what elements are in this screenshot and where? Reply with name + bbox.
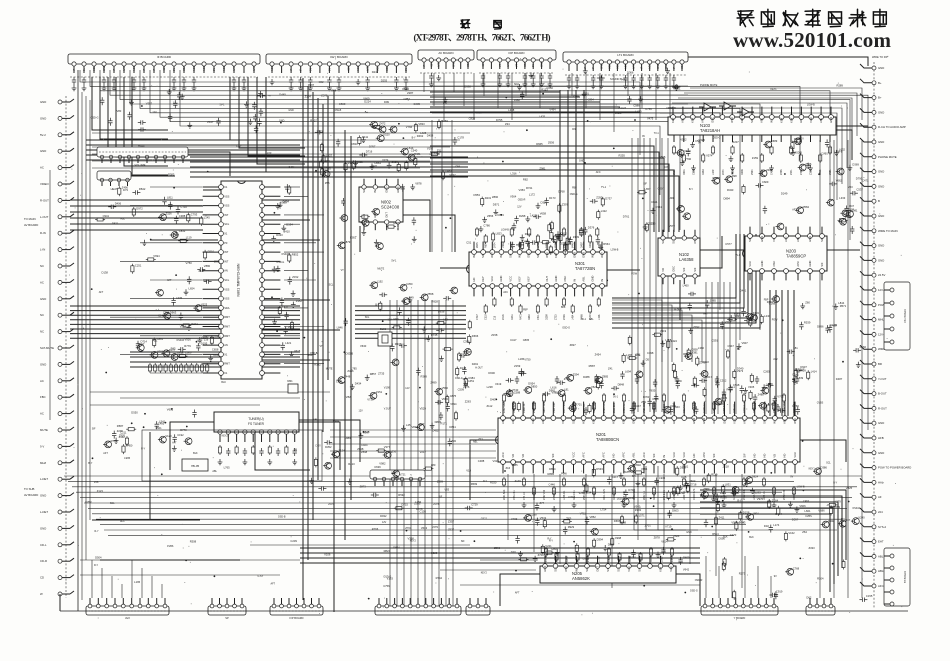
bus wire: [396, 300, 398, 606]
wire: [731, 576, 733, 598]
capacitor: [462, 366, 466, 374]
pin 10: [760, 115, 765, 120]
svg-text:C806: C806: [185, 351, 192, 355]
left pin 30: [58, 576, 62, 580]
pin L19: [219, 352, 224, 357]
svg-text:OUT: OUT: [490, 252, 494, 258]
transistor: [776, 223, 784, 230]
svg-text:ABL: ABL: [783, 418, 787, 424]
scan noise dots (decorative): [66, 56, 903, 620]
svg-text:LOW-B: LOW-B: [611, 248, 619, 251]
svg-text:Z701: Z701: [645, 524, 652, 528]
ground: [374, 239, 379, 245]
wire: [120, 397, 300, 399]
capacitor: [548, 73, 552, 81]
svg-text:C875: C875: [450, 394, 457, 398]
wire: [91, 560, 93, 598]
svg-text:SIF: SIF: [536, 253, 540, 258]
resistor: [437, 119, 440, 129]
wire: [131, 560, 133, 598]
resistor: [582, 477, 585, 487]
svg-text:R462: R462: [417, 134, 424, 138]
transistor: [557, 390, 565, 397]
svg-text:ABL: ABL: [796, 236, 800, 242]
svg-text:AFT: AFT: [233, 66, 236, 71]
ground: [641, 360, 646, 366]
wire: [430, 146, 654, 232]
svg-text:D32: D32: [764, 524, 769, 528]
svg-text:Z59: Z59: [641, 400, 646, 404]
svg-text:L192: L192: [377, 280, 383, 284]
svg-text:www.520101.com: www.520101.com: [733, 28, 892, 52]
resistor: [126, 428, 136, 431]
svg-text:SDA: SDA: [224, 306, 230, 310]
svg-text:V878: V878: [415, 182, 422, 186]
svg-text:IN: IN: [770, 120, 774, 123]
capacitor: [675, 376, 679, 384]
svg-text:D665: D665: [614, 519, 621, 523]
remote header: [370, 470, 425, 486]
wire: [266, 77, 305, 172]
svg-text:KEY: KEY: [671, 117, 675, 123]
left pin 14: [58, 313, 62, 317]
svg-text:IN: IN: [600, 279, 604, 282]
wire: [70, 229, 203, 231]
resistor: [190, 363, 193, 373]
wire: [284, 326, 324, 328]
resistor: [580, 227, 583, 237]
ground: [788, 501, 793, 507]
IC N201 TA8880BCN: [496, 402, 800, 474]
tuner pin 1: [218, 430, 222, 434]
bus wire: [84, 502, 770, 504]
svg-text:C786: C786: [483, 224, 490, 228]
wire: [700, 249, 745, 251]
svg-text:WIRE TO MAIN: WIRE TO MAIN: [878, 229, 898, 233]
capacitor: [623, 75, 627, 83]
svg-text:C217: C217: [612, 475, 619, 479]
svg-text:V.OUT: V.OUT: [362, 432, 370, 435]
svg-text:Z462: Z462: [766, 168, 773, 172]
resistor: [352, 160, 355, 170]
wire: [700, 508, 834, 584]
ground: [808, 165, 813, 171]
wire: [663, 474, 665, 552]
svg-text:MUTE: MUTE: [40, 428, 48, 432]
wire: [679, 280, 681, 320]
wire: [80, 559, 300, 561]
svg-text:V419: V419: [495, 382, 502, 386]
wire: [432, 85, 688, 87]
wire: [539, 73, 541, 108]
wire: [599, 73, 601, 120]
left pin 1: [58, 100, 62, 104]
svg-text:KEY: KEY: [658, 566, 662, 572]
svg-text:D441: D441: [740, 289, 747, 293]
capacitor: [197, 267, 205, 271]
capacitor: [308, 77, 312, 85]
pin 17: [829, 115, 834, 120]
transistor: [391, 470, 399, 477]
resistor: [288, 185, 291, 195]
ground: [481, 81, 486, 87]
pin L9: [219, 259, 224, 264]
svg-text:V593: V593: [731, 521, 738, 525]
capacitor: [397, 307, 401, 315]
svg-text:VD: VD: [561, 420, 565, 424]
svg-text:5V: 5V: [532, 64, 535, 67]
svg-text:D534: D534: [286, 223, 293, 227]
svg-text:V790: V790: [685, 157, 692, 161]
svg-text:VT: VT: [341, 269, 345, 272]
svg-text:AV2: AV2: [125, 616, 130, 620]
svg-text:C299: C299: [834, 505, 841, 509]
svg-text:B+: B+: [878, 81, 882, 85]
resistor: [692, 401, 695, 411]
resistor: [707, 473, 710, 483]
capacitor: [655, 478, 659, 486]
ground: [365, 85, 370, 91]
svg-text:R674: R674: [485, 242, 488, 248]
svg-text:R664: R664: [528, 314, 531, 320]
svg-text:R-OUT: R-OUT: [40, 198, 49, 202]
transistor: [400, 148, 408, 155]
svg-text:R530: R530: [490, 481, 497, 485]
capacitor: [337, 77, 341, 85]
svg-text:R891: R891: [767, 300, 774, 304]
wire: [612, 234, 736, 298]
svg-text:AFC: AFC: [700, 117, 704, 122]
pin 13: [581, 250, 586, 255]
svg-text:K1: K1: [224, 185, 228, 189]
ground: [643, 224, 648, 230]
svg-text:R30: R30: [589, 243, 592, 248]
svg-text:Z457: Z457: [734, 313, 741, 317]
resistor: [555, 552, 558, 562]
svg-text:Z287: Z287: [407, 91, 414, 95]
svg-text:GND: GND: [878, 140, 884, 144]
capacitor: [699, 379, 707, 383]
cs1 pin 1: [890, 288, 894, 292]
svg-text:AGC: AGC: [223, 65, 226, 71]
svg-text:12V: 12V: [359, 409, 364, 412]
wire: [355, 323, 466, 325]
svg-text:V374: V374: [382, 158, 389, 162]
svg-text:R571: R571: [840, 304, 847, 308]
svg-text:SIF: SIF: [481, 253, 485, 258]
resistor: [742, 184, 745, 194]
wire: [70, 211, 203, 213]
pin L15: [219, 315, 224, 320]
right pin 10: [872, 199, 876, 203]
transistor: [838, 520, 846, 527]
svg-text:GND: GND: [878, 184, 884, 188]
svg-text:V852: V852: [590, 515, 597, 519]
resistor: [268, 445, 271, 455]
svg-text:AFT: AFT: [103, 452, 108, 455]
svg-text:D241: D241: [372, 70, 379, 74]
svg-text:HD: HD: [783, 454, 787, 458]
wire: [190, 166, 468, 168]
resistor: [458, 352, 461, 362]
svg-text:C-SY: C-SY: [236, 145, 242, 148]
svg-text:9V: 9V: [642, 135, 645, 138]
wire: [431, 120, 433, 252]
svg-text:GND: GND: [279, 119, 285, 122]
svg-text:AN: AN: [224, 343, 228, 347]
wire: [70, 199, 203, 201]
ground: [180, 94, 185, 100]
svg-text:D411: D411: [362, 135, 369, 139]
wire: [525, 73, 527, 96]
ground: [395, 475, 400, 481]
IC N203 TA8859CP: [743, 227, 827, 281]
svg-text:C192: C192: [177, 433, 184, 437]
capacitor: [327, 77, 331, 85]
pin 4: [574, 564, 579, 569]
svg-text:V964 330: V964 330: [533, 402, 536, 413]
svg-text:V357: V357: [146, 101, 153, 105]
svg-text:Z989: Z989: [661, 556, 664, 562]
svg-text:LOW-B: LOW-B: [797, 485, 805, 488]
pin 14: [632, 416, 637, 421]
wire: [284, 223, 300, 225]
left pin 3: [58, 133, 62, 137]
svg-text:GND: GND: [591, 276, 595, 282]
transistor: [449, 287, 457, 294]
svg-text:ABL: ABL: [819, 117, 823, 123]
wire: [70, 323, 300, 325]
right pin 26: [872, 436, 876, 440]
svg-text:R852: R852: [292, 253, 299, 257]
svg-text:Z34: Z34: [505, 122, 510, 126]
svg-text:SDA: SDA: [183, 66, 186, 71]
wire: [432, 112, 688, 114]
bus wire: [819, 140, 821, 598]
resistor: [819, 153, 822, 163]
right pin 18: [872, 318, 876, 322]
pin 1: [748, 234, 753, 239]
svg-text:C251: C251: [135, 263, 142, 267]
wire: [190, 161, 468, 163]
pin 2: [672, 236, 676, 240]
wire: [612, 234, 748, 313]
svg-text:B-Y: B-Y: [327, 463, 331, 466]
svg-text:OSD-R: OSD-R: [852, 507, 860, 510]
right pin 7: [872, 155, 876, 159]
resistor: [672, 145, 675, 155]
capacitor: [481, 73, 485, 81]
svg-text:D310: D310: [208, 249, 215, 253]
svg-text:R-IN: R-IN: [40, 231, 46, 235]
resistor: [164, 363, 167, 373]
pin 7: [606, 564, 611, 569]
wire: [70, 305, 300, 307]
svg-text:L238: L238: [531, 512, 537, 516]
svg-text:D530: D530: [464, 85, 471, 89]
resistor: [320, 143, 323, 153]
capacitor: [678, 557, 682, 565]
capacitor: [390, 343, 394, 351]
svg-text:V223: V223: [201, 303, 208, 307]
resistor: [652, 401, 655, 411]
svg-text:C247: C247: [635, 404, 642, 408]
svg-text:L804: L804: [753, 511, 759, 515]
right pin 22: [872, 377, 876, 381]
wire: [612, 234, 744, 308]
transistor: [361, 220, 369, 227]
svg-text:R413: R413: [348, 462, 355, 466]
svg-text:Z496: Z496: [780, 169, 783, 175]
resistor: [562, 227, 565, 237]
resistor: [696, 356, 699, 366]
svg-text:V880: V880: [204, 264, 211, 268]
resistor: [559, 233, 562, 243]
capacitor: [799, 322, 803, 330]
wire: [355, 305, 466, 307]
ground: [619, 473, 624, 479]
pin 28: [773, 416, 778, 421]
svg-text:R653: R653: [138, 144, 145, 148]
ground: [655, 83, 660, 89]
wire: [140, 242, 202, 244]
capacitor: [579, 228, 583, 236]
capacitor: [688, 292, 696, 296]
resistor: [376, 449, 386, 452]
resistor: [760, 314, 763, 324]
svg-text:L462: L462: [336, 380, 342, 384]
resistor: [760, 153, 763, 163]
transistor: [337, 242, 345, 249]
wire: [735, 282, 737, 414]
wire: [188, 152, 230, 176]
svg-text:KEY: KEY: [554, 252, 558, 258]
svg-text:Z237: Z237: [679, 491, 686, 495]
transistor: [771, 296, 779, 303]
ground: [792, 378, 797, 384]
svg-text:Z602 1K: Z602 1K: [643, 491, 646, 500]
svg-text:12V: 12V: [517, 205, 522, 208]
wire: [284, 307, 308, 309]
svg-text:OSD-B: OSD-B: [278, 515, 286, 518]
wire: [480, 559, 538, 561]
svg-text:C621: C621: [481, 516, 488, 520]
capacitor: [253, 114, 257, 122]
svg-text:V821: V821: [412, 425, 419, 429]
svg-text:D896: D896: [817, 325, 824, 329]
wire: [355, 337, 466, 339]
tuner pin 10: [293, 430, 297, 434]
resistor: [593, 538, 596, 548]
wire: [669, 73, 671, 132]
svg-text:V398: V398: [408, 537, 415, 541]
connector strip FIP BOARD: [477, 50, 556, 87]
svg-text:C446: C446: [549, 483, 556, 487]
bus wire: [431, 300, 433, 606]
pin L21: [219, 371, 224, 376]
transistor: [851, 518, 859, 525]
svg-text:Z937: Z937: [448, 528, 455, 532]
svg-text:D330: D330: [560, 241, 567, 245]
bus wire: [333, 90, 335, 612]
capacitor: [519, 368, 523, 376]
svg-text:AGC: AGC: [203, 65, 206, 71]
wire: [718, 566, 720, 598]
transistor: [420, 294, 428, 301]
resistor: [716, 503, 719, 513]
svg-text:C919: C919: [776, 590, 783, 594]
ground: [762, 384, 767, 390]
svg-text:D217 0.1: D217 0.1: [683, 403, 686, 413]
svg-text:D533: D533: [596, 467, 603, 471]
svg-text:L811: L811: [167, 195, 173, 199]
svg-text:MUTE: MUTE: [377, 268, 384, 271]
capacitor: [226, 448, 230, 456]
ground: [674, 84, 679, 90]
transistor: [763, 141, 771, 148]
svg-text:V106: V106: [324, 553, 331, 557]
svg-text:Z93: Z93: [451, 439, 456, 443]
ground: [278, 202, 283, 208]
resistor: [153, 338, 156, 348]
transistor: [416, 424, 424, 431]
bus wire: [170, 70, 680, 230]
resistor: [446, 395, 449, 405]
resistor: [322, 154, 325, 164]
transistor: [758, 402, 766, 409]
resistor: [541, 241, 551, 244]
svg-text:IN: IN: [518, 255, 522, 258]
tuner pin 2: [226, 430, 230, 434]
svg-text:VT: VT: [516, 63, 519, 67]
ground: [520, 235, 525, 241]
wire: [700, 490, 846, 560]
ground: [72, 85, 77, 91]
capacitor: [544, 198, 548, 206]
ground: [172, 446, 177, 452]
pin L16: [219, 324, 224, 329]
capacitor: [204, 279, 212, 283]
ground: [722, 502, 727, 508]
svg-text:VCC: VCC: [809, 117, 813, 123]
svg-text:OSD-B: OSD-B: [281, 253, 289, 256]
transistor: [136, 344, 144, 351]
pin 5: [796, 234, 801, 239]
transistor: [170, 232, 178, 239]
bus wire: [307, 86, 309, 560]
svg-text:AFC: AFC: [596, 171, 601, 174]
svg-text:AGC: AGC: [357, 65, 360, 71]
wire: [700, 502, 838, 576]
pin 14: [799, 115, 804, 120]
capacitor: [661, 547, 665, 555]
svg-text:B-Y: B-Y: [88, 462, 92, 465]
svg-text:R45: R45: [171, 347, 176, 351]
wire: [500, 574, 540, 606]
wire: [607, 269, 640, 271]
svg-text:KEY: KEY: [779, 117, 783, 123]
svg-text:SIF: SIF: [92, 428, 96, 431]
svg-text:KEY2: KEY2: [222, 435, 229, 438]
resistor: [666, 538, 676, 541]
capacitor: [142, 77, 146, 85]
connector strip LT1 BOARD: [563, 52, 688, 89]
pin 13: [621, 416, 626, 421]
svg-text:D458: D458: [427, 133, 434, 137]
resistor: [611, 537, 614, 547]
svg-text:LOW-B: LOW-B: [501, 229, 509, 232]
svg-text:5V-1: 5V-1: [391, 260, 397, 263]
